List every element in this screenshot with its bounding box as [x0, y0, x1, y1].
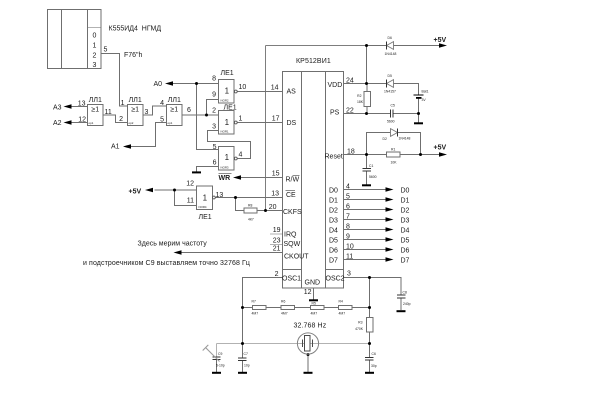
svg-text:A0: A0 [154, 81, 163, 88]
svg-text:D1: D1 [329, 198, 338, 205]
svg-text:D5: D5 [401, 238, 410, 245]
svg-text:5600: 5600 [369, 175, 377, 179]
svg-text:10: 10 [346, 244, 354, 251]
svg-text:≥1: ≥1 [91, 107, 99, 114]
svg-text:4: 4 [239, 152, 243, 159]
svg-text:30p: 30p [371, 364, 377, 368]
svg-text:8: 8 [346, 224, 350, 231]
svg-text:SQW: SQW [284, 241, 301, 248]
svg-text:22: 22 [346, 108, 354, 115]
svg-text:F76"h: F76"h [124, 52, 143, 59]
svg-text:D3: D3 [329, 218, 338, 225]
svg-text:9: 9 [346, 234, 350, 241]
svg-text:3: 3 [145, 109, 149, 116]
svg-text:13: 13 [271, 191, 279, 198]
svg-text:ЛЕ1: ЛЕ1 [221, 70, 234, 77]
svg-text:2: 2 [93, 53, 97, 60]
svg-text:19: 19 [273, 227, 281, 234]
svg-text:1: 1 [239, 116, 243, 123]
svg-text:1: 1 [225, 87, 230, 96]
svg-text:OSC2: OSC2 [326, 276, 345, 283]
svg-text:D5: D5 [329, 238, 338, 245]
svg-text:Reset: Reset [325, 154, 343, 161]
svg-text:R5: R5 [312, 301, 316, 305]
svg-text:ор1: ор1 [89, 121, 94, 125]
svg-text:Здесь мерим частоту: Здесь мерим частоту [138, 241, 208, 248]
svg-text:2: 2 [119, 116, 123, 123]
svg-text:21: 21 [273, 246, 281, 253]
svg-text:D7: D7 [401, 258, 410, 265]
svg-text:R1: R1 [391, 148, 395, 152]
svg-text:11: 11 [105, 109, 112, 116]
svg-text:R/W: R/W [286, 177, 300, 184]
svg-text:2: 2 [212, 108, 216, 115]
svg-text:6: 6 [346, 204, 350, 211]
svg-text:Bat1: Bat1 [422, 90, 429, 94]
svg-text:D0: D0 [329, 188, 338, 195]
svg-text:D0: D0 [401, 188, 410, 195]
svg-text:D6: D6 [401, 248, 410, 255]
svg-text:CKFS: CKFS [283, 209, 302, 216]
svg-text:32.768 Hz: 32.768 Hz [294, 323, 327, 330]
svg-text:7: 7 [346, 214, 350, 221]
svg-text:1N4148: 1N4148 [385, 52, 397, 56]
svg-text:WR: WR [219, 175, 231, 182]
svg-text:+5V: +5V [434, 145, 447, 152]
svg-text:PS: PS [330, 110, 340, 117]
svg-text:C9: C9 [218, 352, 222, 356]
svg-text:4М7: 4М7 [281, 312, 288, 316]
svg-text:К555ИД4 НГМД: К555ИД4 НГМД [109, 26, 162, 33]
svg-text:18: 18 [347, 149, 355, 156]
svg-text:R3: R3 [358, 321, 362, 325]
svg-text:17: 17 [272, 116, 280, 123]
svg-text:10K: 10K [391, 161, 398, 165]
svg-text:D6: D6 [388, 36, 392, 40]
svg-text:11: 11 [187, 197, 194, 204]
svg-text:A3: A3 [53, 105, 62, 112]
svg-text:ЛЕ1: ЛЕ1 [199, 214, 212, 221]
svg-text:ЛЕ1: ЛЕ1 [224, 105, 237, 112]
svg-text:5-10p: 5-10p [216, 364, 225, 368]
svg-text:C1: C1 [369, 164, 373, 168]
svg-text:R8: R8 [248, 204, 252, 208]
svg-text:9: 9 [212, 92, 216, 99]
svg-text:240p: 240p [403, 302, 411, 306]
svg-text:D4: D4 [401, 228, 410, 235]
svg-text:1: 1 [93, 43, 97, 50]
svg-text:D1: D1 [401, 198, 410, 205]
svg-text:+5V: +5V [434, 37, 447, 44]
svg-text:13: 13 [216, 192, 224, 199]
svg-text:3: 3 [212, 124, 216, 131]
svg-text:10p: 10p [244, 364, 250, 368]
svg-text:R6: R6 [281, 300, 285, 304]
svg-text:CE: CE [286, 192, 296, 199]
svg-text:R2: R2 [357, 94, 361, 98]
svg-text:6: 6 [213, 160, 217, 167]
svg-text:D2: D2 [329, 208, 338, 215]
svg-text:IRQ: IRQ [284, 232, 297, 239]
svg-text:1N4148: 1N4148 [399, 137, 411, 141]
svg-text:CKOUT: CKOUT [284, 254, 309, 261]
svg-text:5: 5 [104, 47, 108, 54]
svg-text:20: 20 [269, 204, 277, 211]
svg-text:18K: 18K [357, 100, 364, 104]
svg-text:и подстроечником С9 выставляем: и подстроечником С9 выставляем точно 327… [83, 260, 250, 267]
svg-text:ЛЛ1: ЛЛ1 [89, 97, 102, 104]
svg-text:ЛЛ1: ЛЛ1 [129, 97, 142, 104]
svg-text:12: 12 [304, 289, 312, 296]
svg-text:VDD: VDD [328, 82, 343, 89]
svg-text:11: 11 [346, 254, 353, 261]
svg-text:D7: D7 [329, 258, 338, 265]
svg-text:23: 23 [273, 237, 281, 244]
svg-text:4М7: 4М7 [339, 312, 346, 316]
svg-text:NOR4: NOR4 [199, 205, 207, 209]
svg-text:4: 4 [346, 184, 350, 191]
svg-text:0: 0 [93, 33, 97, 40]
svg-text:D5: D5 [388, 74, 392, 78]
svg-text:12: 12 [78, 117, 86, 124]
svg-text:1: 1 [225, 153, 230, 162]
svg-text:D2: D2 [383, 137, 387, 141]
svg-text:≥1: ≥1 [170, 107, 178, 114]
svg-text:ор2: ор2 [129, 121, 134, 125]
svg-text:C5: C5 [391, 104, 395, 108]
svg-text:1: 1 [121, 100, 125, 107]
svg-text:4: 4 [160, 100, 164, 107]
svg-text:A2: A2 [53, 120, 62, 127]
svg-text:4М7: 4М7 [252, 312, 259, 316]
svg-text:GND: GND [305, 280, 321, 287]
svg-text:15: 15 [272, 171, 280, 178]
svg-text:C7: C7 [244, 352, 248, 356]
svg-text:5: 5 [346, 194, 350, 201]
svg-text:2: 2 [275, 271, 279, 278]
svg-text:13: 13 [78, 101, 86, 108]
svg-text:5600: 5600 [387, 120, 395, 124]
svg-text:12: 12 [186, 181, 194, 188]
svg-text:D3: D3 [401, 218, 410, 225]
svg-text:3: 3 [93, 62, 97, 69]
svg-text:14: 14 [271, 85, 279, 92]
svg-text:+5V: +5V [129, 189, 142, 196]
svg-text:4М7: 4М7 [311, 312, 318, 316]
svg-text:NOR2: NOR2 [221, 99, 229, 103]
svg-text:NOR1: NOR1 [221, 130, 229, 134]
svg-text:R7: R7 [252, 300, 256, 304]
svg-text:R4: R4 [339, 300, 343, 304]
svg-text:≥1: ≥1 [131, 107, 139, 114]
svg-text:ЛЛ1: ЛЛ1 [168, 97, 181, 104]
svg-text:470K: 470K [355, 327, 364, 331]
svg-text:C6: C6 [372, 352, 376, 356]
svg-text:5: 5 [160, 117, 164, 124]
svg-text:10: 10 [239, 84, 247, 91]
svg-text:DS: DS [287, 120, 297, 127]
svg-text:OSC1: OSC1 [282, 276, 301, 283]
svg-text:4К7: 4К7 [248, 218, 254, 222]
svg-text:A1: A1 [111, 144, 120, 151]
svg-text:1N4157: 1N4157 [384, 90, 396, 94]
svg-text:3: 3 [347, 271, 351, 278]
svg-text:КР512ВИ1: КР512ВИ1 [296, 58, 331, 65]
svg-text:D2: D2 [401, 208, 410, 215]
svg-text:D6: D6 [329, 248, 338, 255]
svg-text:C8: C8 [403, 291, 407, 295]
svg-text:1: 1 [225, 118, 230, 127]
svg-text:5: 5 [213, 144, 217, 151]
svg-text:NOR3: NOR3 [221, 166, 229, 170]
svg-text:6: 6 [187, 107, 191, 114]
svg-text:1: 1 [203, 194, 208, 203]
svg-text:D4: D4 [329, 228, 338, 235]
svg-text:24: 24 [346, 78, 354, 85]
svg-text:AS: AS [287, 89, 297, 96]
svg-text:3V: 3V [422, 98, 427, 102]
svg-text:8: 8 [212, 76, 216, 83]
svg-text:ор1: ор1 [168, 121, 173, 125]
